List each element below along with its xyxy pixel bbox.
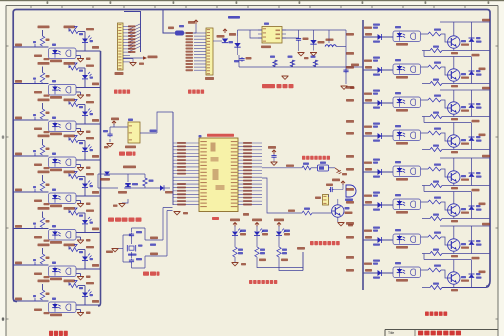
label TVS row 2 <box>34 91 50 97</box>
resistor R emitter 2 <box>430 79 458 88</box>
label TVS row 5 <box>34 200 50 206</box>
junction cap row 8 <box>33 295 36 301</box>
resistor R emitter 5 <box>430 181 458 190</box>
net label IN4 <box>15 153 22 156</box>
LED indicator 3 <box>276 226 290 236</box>
power flag row 4 <box>74 136 77 139</box>
resistor R10 <box>69 175 83 181</box>
label TVS row 4 <box>34 164 50 170</box>
junction cap row 3 <box>33 114 36 120</box>
diode D out 8 <box>364 260 382 279</box>
optocoupler U1 <box>49 44 77 63</box>
resistor R8 <box>69 139 83 145</box>
mcu U12 89C51 <box>199 138 238 212</box>
resistor R dcdc3 <box>311 56 318 67</box>
LED indicator 2 <box>254 226 268 236</box>
diode D10 <box>229 33 241 55</box>
section label shuru dianyuan <box>49 331 68 336</box>
bus output extra labels <box>346 52 354 259</box>
diode freewheel 5 <box>469 158 482 186</box>
wire collector 8 <box>453 260 455 272</box>
section label jiting kaiguan <box>302 156 330 160</box>
label TVS row 3 <box>34 128 50 134</box>
wire collector 2 <box>453 57 455 69</box>
diode freewheel 4 <box>469 123 482 150</box>
switch S1 <box>311 162 335 172</box>
diode D out 7 <box>364 227 382 246</box>
power flag LED col 3 <box>274 219 284 227</box>
wire collector 4 <box>453 123 455 135</box>
inductor L2 <box>325 39 346 47</box>
wire input row 1 <box>13 28 101 59</box>
label MCU bottom <box>212 213 249 220</box>
wire emitter 3 <box>422 114 490 116</box>
wire +HY arrow <box>123 56 158 60</box>
section label fuwei dianlu <box>119 152 136 156</box>
wires MCU right pins <box>238 143 262 205</box>
wire out terminal 5 <box>424 186 480 192</box>
wire LED col 2 <box>257 257 303 268</box>
optocoupler U out 7 <box>393 229 421 249</box>
ground buzzer <box>338 218 354 227</box>
wire output row 3 input <box>346 99 393 103</box>
ground row 5 <box>77 203 91 207</box>
net label 24V row 5 <box>92 191 99 194</box>
optocoupler U3 <box>49 117 77 136</box>
dcdc converter U10 <box>258 23 286 49</box>
net label KC_IN6 <box>38 207 50 210</box>
net label KC_IN3 <box>38 99 50 102</box>
net label KC_A4 <box>64 135 76 138</box>
diode D out 4 <box>364 123 382 142</box>
label TVS row 6 <box>34 236 50 242</box>
diode D12 <box>100 172 110 181</box>
diode D out 6 <box>364 192 382 211</box>
diode D out 5 <box>364 159 382 178</box>
resistor R emitter 6 <box>430 214 458 223</box>
resistor R estop <box>302 163 311 170</box>
ground row 6 <box>77 239 91 243</box>
wire crystal loop <box>123 228 145 268</box>
LED3 <box>82 101 94 115</box>
net label 24V row 7 <box>92 264 99 267</box>
net label KC_IN7 <box>38 244 50 247</box>
capacitor C12 <box>343 64 359 74</box>
capacitor C13 <box>103 130 113 137</box>
ground estop cap <box>271 162 278 165</box>
resistor R emitter 4 <box>430 145 458 154</box>
label VCC buzzer <box>332 179 345 186</box>
wire out terminal 1 <box>424 51 480 57</box>
resistor R3 <box>40 73 49 83</box>
wire base to Q <box>312 212 332 214</box>
net label KC_A7 <box>64 244 76 247</box>
ground protect <box>113 204 126 207</box>
junction cap row 7 <box>33 259 36 265</box>
resistor R14 <box>69 248 83 254</box>
diode D9 <box>213 29 233 43</box>
optocoupler U out 8 <box>393 262 421 282</box>
net label KC_A8 <box>64 280 76 283</box>
wire XTAL1 <box>145 208 173 241</box>
wire collector 6 <box>453 192 455 204</box>
label TVS row 8 <box>34 309 50 315</box>
transistor Q out 7 <box>448 239 469 251</box>
net label KC_A2 <box>64 62 76 65</box>
capacitor C11 electrolytic <box>234 57 252 62</box>
wire opto to Q 6 <box>421 202 448 210</box>
ground dcdc b <box>282 76 289 79</box>
power flag row 5 <box>74 172 77 175</box>
ground dcdc a <box>298 42 318 60</box>
wire buzzer base <box>262 178 302 213</box>
wire collector 7 <box>453 226 455 239</box>
resistor R13 <box>40 254 49 264</box>
net label KC_IN1 <box>38 26 50 29</box>
wire VCC feed <box>163 10 175 33</box>
svg-text:Title: Title <box>388 331 394 335</box>
net label IN3 <box>15 117 22 120</box>
diode freewheel 2 <box>469 57 482 84</box>
capacitor C14 <box>129 231 142 237</box>
resistor R out 1 <box>428 29 441 37</box>
wire input row 5 <box>13 173 101 204</box>
label out terminal 6 <box>479 203 486 206</box>
transistor Q out 8 <box>448 272 469 284</box>
resistor R7 <box>40 145 49 155</box>
net label KC_IN5 <box>38 171 50 174</box>
rail 24V pair 1 <box>440 19 490 22</box>
rail 24V pair 2 <box>440 87 490 90</box>
wires MCU left pins <box>173 143 199 205</box>
resistor R5 <box>40 109 49 119</box>
wire opto to Q 8 <box>421 270 448 278</box>
net label IN5 <box>15 189 22 192</box>
ground row 2 <box>77 94 91 98</box>
power flag LED col 2 <box>252 219 262 227</box>
wire opto to Q 2 <box>421 67 448 75</box>
wire emitter 8 <box>422 284 490 288</box>
resistor R out 6 <box>428 197 441 205</box>
LED4 <box>82 137 94 151</box>
diode D out 3 <box>364 90 382 109</box>
wire protect loop <box>98 174 160 203</box>
resistor R out 4 <box>428 128 441 136</box>
wire emitter 7 <box>422 251 490 253</box>
optocoupler U out 4 <box>393 125 421 145</box>
LED indicator 1 <box>232 226 246 236</box>
optocoupler U out 2 <box>393 59 421 79</box>
net label 24V row 1 <box>92 46 99 49</box>
net label 24V row 6 <box>92 228 99 231</box>
wire reset loop <box>110 122 131 142</box>
section label shuru jiekou <box>114 90 130 94</box>
wire output row 8 input <box>346 269 393 273</box>
wire LED join <box>297 247 305 271</box>
wire estop <box>262 165 302 168</box>
resistor R out 8 <box>428 265 441 273</box>
wire collector 5 <box>453 158 455 171</box>
transistor Q out 5 <box>448 171 469 183</box>
ground crystal <box>106 249 123 254</box>
transistor Q out 1 <box>448 36 469 48</box>
ground estop <box>335 168 347 175</box>
label DCDC 5V <box>228 16 240 19</box>
net label IN6 <box>15 225 22 228</box>
net labels J1 <box>128 25 136 53</box>
wire out terminal 7 <box>424 254 480 260</box>
optocoupler U out 6 <box>393 194 421 214</box>
LED7 <box>82 246 94 260</box>
label 89C51 title <box>199 134 235 138</box>
resistor R6 <box>69 103 83 109</box>
net label KC_IN2 <box>38 62 50 65</box>
resistor LED 2 <box>255 236 265 257</box>
wire opto to Q 7 <box>421 237 448 245</box>
wire LED col 3 <box>279 257 303 271</box>
LED6 <box>82 210 94 224</box>
power flag row 2 <box>74 63 77 66</box>
resistor R dcdc1 <box>270 56 277 67</box>
connector J1 input port <box>115 23 124 75</box>
net label 24V row 2 <box>92 83 99 86</box>
net label KC_A5 <box>64 171 76 174</box>
label VCC_BAT <box>123 166 136 169</box>
LED1 <box>82 28 94 42</box>
junction cap row 1 <box>33 41 36 47</box>
optocoupler U out 3 <box>393 92 421 112</box>
power flag row 3 <box>74 100 77 103</box>
wire RST out <box>140 130 157 134</box>
bus input 24V <box>98 51 101 306</box>
transistor Q9 <box>332 205 353 217</box>
reset chip U11 <box>125 119 140 149</box>
capacitor C17 <box>326 184 334 193</box>
ground row 8 <box>77 312 91 316</box>
connector J2 output port <box>205 28 214 80</box>
ground reset <box>104 144 114 149</box>
wire buzzer links <box>329 184 344 205</box>
wire opto to Q 4 <box>421 133 448 141</box>
ground row 4 <box>77 167 91 171</box>
LED2 <box>82 65 94 79</box>
ground dcdc c <box>341 86 355 89</box>
resistor R emitter 3 <box>430 112 458 121</box>
section label gongzuo zhuangtai <box>249 280 277 284</box>
diode freewheel 3 <box>469 90 482 117</box>
net labels J2 <box>186 32 194 71</box>
wire RST to bus <box>157 112 173 133</box>
diode D out 1 <box>364 24 382 43</box>
wire input row 8 <box>13 282 101 313</box>
LED5 <box>82 173 94 187</box>
wire input row 4 <box>13 137 101 168</box>
wire output row 4 input <box>346 132 393 136</box>
power flag row 8 <box>74 281 77 284</box>
resistor R emitter 7 <box>430 249 458 258</box>
resistor R dcdc2 <box>288 56 295 67</box>
resistor R out 7 <box>428 232 441 240</box>
transistor Q out 4 <box>448 135 469 147</box>
net labels MCU left <box>177 142 186 205</box>
power flag row 1 <box>74 27 77 30</box>
section label shuchu jiekou <box>188 90 204 94</box>
capacitor C15 <box>129 258 142 263</box>
resistor R11 <box>40 218 49 228</box>
wire XTAL2 <box>145 211 173 257</box>
diode freewheel 7 <box>469 226 482 254</box>
optocoupler U8 <box>49 298 77 317</box>
diode freewheel 8 <box>469 260 482 288</box>
wire collector 1 <box>453 22 455 36</box>
wire emitter 1 <box>422 48 490 50</box>
section label fengmingqi <box>310 241 340 245</box>
resistor R protect <box>143 178 154 186</box>
section label jingzhen dianlu <box>143 272 160 276</box>
wire dcdc to bus <box>347 66 363 68</box>
power flag row 7 <box>74 245 77 248</box>
power flag LED col 1 <box>230 219 240 227</box>
label out terminal 8 <box>479 271 486 274</box>
ground row 1 <box>77 58 91 62</box>
crystal Y1 <box>127 245 142 256</box>
label out terminal 2 <box>479 68 486 71</box>
wire output row 7 input <box>346 236 393 240</box>
optocoupler U4 <box>49 153 77 172</box>
wire output row 6 input <box>346 201 393 205</box>
wire dcdc left loop <box>238 30 263 38</box>
resistor R emitter 1 <box>430 46 458 55</box>
diode freewheel 6 <box>469 192 482 219</box>
LED8 <box>82 282 94 296</box>
resistor R9 <box>40 181 49 191</box>
wire input row 7 <box>13 246 101 277</box>
resistor LED 3 <box>277 236 287 257</box>
buzzer LS1 <box>345 185 356 201</box>
resistor R out 5 <box>428 164 441 172</box>
connector buzzer P2 <box>315 195 329 206</box>
inductor L1 <box>168 25 184 36</box>
net label IN2 <box>15 80 22 83</box>
transistor Q out 2 <box>448 69 469 81</box>
diode freewheel 1 <box>469 22 482 51</box>
net label KC_A1 <box>64 26 76 29</box>
junction cap row 5 <box>33 186 36 192</box>
junction cap row 6 <box>33 223 36 229</box>
net label KC_A3 <box>64 99 76 102</box>
optocoupler U out 5 <box>393 161 421 181</box>
resistor R15 <box>40 290 49 300</box>
bus MCU left <box>172 112 174 205</box>
label VCC estop <box>268 146 276 154</box>
resistor R out 3 <box>428 95 441 103</box>
resistor R out 2 <box>428 62 441 70</box>
net label 24V row 8 <box>92 300 99 303</box>
label TVS row 1 <box>34 55 50 61</box>
wire collector 3 <box>453 90 455 102</box>
wire dcdc rail2 <box>239 46 347 84</box>
diode D out 2 <box>364 57 382 76</box>
rail 24V pair 4 <box>440 223 490 226</box>
resistor R1 <box>40 36 49 46</box>
net label 24V row 3 <box>92 119 99 122</box>
ground J1 <box>123 59 144 66</box>
net label 24V row 4 <box>92 155 99 158</box>
ground row 7 <box>77 276 91 280</box>
power flag row 6 <box>74 208 77 211</box>
optocoupler U7 <box>49 262 77 281</box>
optocoupler U out 1 <box>393 26 421 46</box>
section label DCDC dianyuan <box>262 84 294 88</box>
net label KC_IN8 <box>38 280 50 283</box>
capacitor C16 <box>271 154 276 162</box>
resistor R12 <box>69 211 83 217</box>
diode D14 <box>160 185 173 193</box>
capacitor C10 <box>296 37 309 42</box>
net label IN8 <box>15 298 22 301</box>
net labels MCU right <box>243 142 252 205</box>
power flag VCC conn <box>184 20 198 33</box>
wire output row 1 input <box>346 33 393 37</box>
resistor LED 1 <box>233 236 243 257</box>
resistor R2 <box>69 30 83 36</box>
net label IN7 <box>15 262 22 265</box>
title block <box>385 330 498 336</box>
optocoupler U5 <box>49 189 77 208</box>
label out terminal 4 <box>479 134 486 137</box>
ground MCU <box>174 212 189 215</box>
resistor R buzzer <box>302 208 312 216</box>
label TVS row 7 <box>34 273 50 279</box>
wire input row 6 <box>13 210 101 241</box>
ground LED col 1 <box>232 257 247 266</box>
net label KC_A6 <box>64 207 76 210</box>
wire emitter 5 <box>422 183 490 185</box>
diode D13 <box>125 183 131 187</box>
wire opto to Q 3 <box>421 100 448 108</box>
wires J2 pins <box>194 33 206 70</box>
wire emitter 2 <box>422 81 490 83</box>
net label IN1 <box>15 44 22 47</box>
wire dcdc right <box>282 30 346 46</box>
bus output left <box>362 20 364 290</box>
wire emitter 6 <box>422 216 490 218</box>
section label diaodian baohu <box>108 218 142 222</box>
optocoupler U6 <box>49 225 77 244</box>
wire out terminal 3 <box>424 117 480 123</box>
wire output row 2 input <box>346 66 393 70</box>
wire input row 3 <box>13 101 101 132</box>
resistor R emitter 8 <box>430 283 458 292</box>
wire input row 2 <box>13 65 101 96</box>
battery BT1 <box>118 183 138 194</box>
label VCC reset <box>111 118 119 126</box>
wire opto to Q 1 <box>421 34 448 42</box>
resistor R16 <box>69 284 83 290</box>
resistor R4 <box>69 66 83 72</box>
zener D11 <box>310 40 324 44</box>
junction cap row 2 <box>33 78 36 84</box>
transistor Q out 6 <box>448 204 469 216</box>
ground row 3 <box>77 131 91 135</box>
wire output row 5 input <box>346 168 393 172</box>
section label shuchu dianyuan <box>425 312 447 316</box>
net label KC_IN4 <box>38 135 50 138</box>
transistor Q out 3 <box>448 102 469 114</box>
optocoupler U2 <box>49 80 77 99</box>
wires J1 pins <box>123 12 141 62</box>
wire emitter 4 <box>422 147 490 149</box>
